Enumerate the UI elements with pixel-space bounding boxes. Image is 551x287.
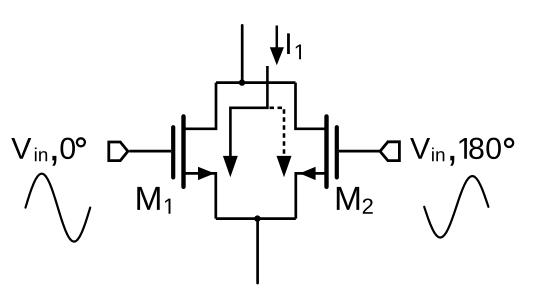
current source I1 arrowhead [270, 47, 284, 65]
label: right subscript in [432, 148, 444, 162]
label: current source I [287, 33, 290, 54]
wire: M1 source connection [184, 173, 216, 218]
label: left subscript in [35, 148, 47, 162]
label: right V of Vin [410, 138, 430, 159]
port: left input pentagon [109, 142, 128, 161]
arrowhead: dashed current arrow [277, 156, 292, 177]
wire: tail current lead [256, 219, 259, 283]
label: transistor M2 letter M [337, 187, 359, 210]
label: transistor M1 subscript 1 [165, 199, 170, 214]
current source I1 arrow shaft [276, 26, 279, 51]
arrowhead: solid current arrow [223, 156, 238, 177]
label: left 0 degrees digit [60, 138, 74, 159]
label: right degree ring [505, 139, 513, 147]
wire: solid current path into M1 [230, 66, 267, 157]
transistor M2 channel bar [324, 116, 328, 186]
waveform: right sine (180 deg) [424, 176, 488, 238]
label: transistor M1 letter M [137, 187, 159, 210]
wire: M1 drain connection [184, 83, 216, 129]
wire: M1 gate lead [129, 150, 171, 153]
wire: M2 gate lead [339, 150, 381, 153]
transistor M2 source arrow [300, 167, 316, 180]
port: right input pentagon [380, 142, 399, 161]
transistor M1 gate bar [171, 127, 175, 177]
wire: bottom rail between sources [216, 217, 296, 220]
wire: M2 drain connection [296, 83, 328, 129]
label: left V of Vin [11, 138, 31, 159]
label: transistor M2 subscript 2 [363, 198, 373, 213]
node: bottom rail junction dot [254, 215, 260, 221]
label: right 180 digit 0 [486, 138, 500, 159]
label: I subscript 1 [296, 45, 301, 60]
label: left comma [52, 156, 56, 166]
label: right comma [450, 156, 454, 166]
wire: top rail between drains [216, 81, 296, 84]
label: right 180 digit 1 [460, 138, 467, 159]
transistor M2 gate bar [335, 127, 339, 177]
waveform: left sine (0 deg) [26, 174, 91, 242]
transistor M1 source arrow [198, 167, 215, 180]
wire: top supply lead [241, 25, 244, 82]
node: top rail junction dot [239, 79, 245, 85]
wire: dashed current path into M2 [270, 108, 285, 156]
transistor M1 channel bar [181, 116, 185, 186]
wire: M2 source connection [296, 173, 327, 218]
label: right 180 digit 8 [469, 138, 483, 159]
label: left degree ring [77, 138, 85, 146]
